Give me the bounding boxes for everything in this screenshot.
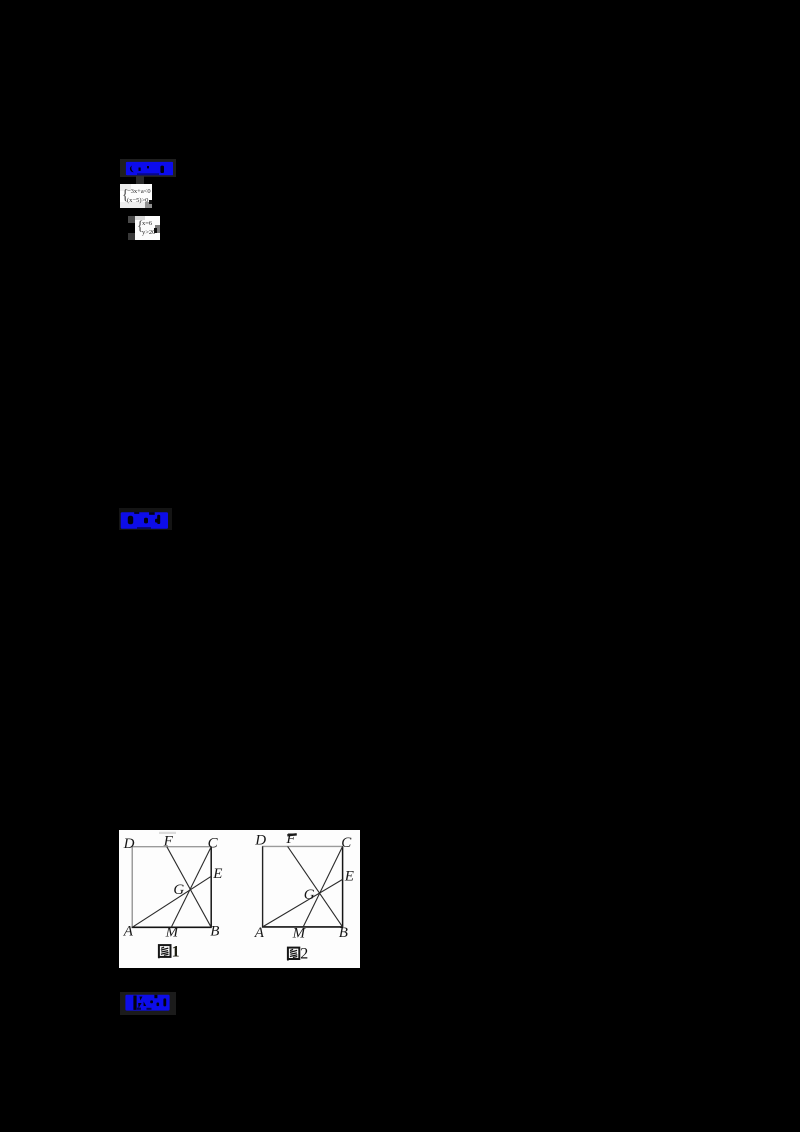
fig2 cevian MC bbox=[303, 846, 342, 927]
formula box 1 bbox=[120, 184, 152, 209]
square fig1 bottom side AB bbox=[132, 926, 212, 928]
svg-text:2: 2 bbox=[300, 946, 308, 963]
svg-text:D: D bbox=[254, 833, 266, 849]
fig2 cevian AE bbox=[263, 879, 343, 927]
connector mark under header1 bbox=[136, 176, 144, 184]
svg-text:A: A bbox=[254, 925, 265, 941]
svg-text:C: C bbox=[208, 836, 219, 852]
caption tu glyph fig1 bbox=[159, 945, 171, 958]
formula box 1 math text bbox=[127, 187, 151, 205]
svg-text:M: M bbox=[165, 925, 180, 941]
header3 blue glyphs bbox=[125, 994, 171, 1012]
header1 backdrop bbox=[120, 159, 176, 177]
svg-text:C: C bbox=[341, 835, 352, 851]
formula box 2 dark mark bbox=[154, 228, 158, 234]
svg-text:M: M bbox=[292, 926, 307, 942]
svg-text:D: D bbox=[123, 836, 135, 852]
fig1 cevian MC bbox=[171, 847, 211, 928]
formula box 1 bottom-right gray corner bbox=[145, 202, 152, 209]
formula box 2 bbox=[135, 216, 161, 241]
square fig2 left side DA bbox=[262, 846, 264, 927]
formula box 2 bottom-right gray corner bbox=[155, 225, 161, 233]
svg-text:B: B bbox=[210, 924, 219, 940]
svg-text:A: A bbox=[123, 924, 134, 940]
formula box 1 dark mark bbox=[149, 200, 152, 204]
svg-text:1: 1 bbox=[172, 944, 180, 961]
formula box 2 brace bbox=[137, 219, 143, 237]
caption tu glyph fig2 bbox=[288, 948, 299, 961]
figure panel bbox=[119, 830, 360, 968]
header3 backdrop bbox=[120, 992, 176, 1015]
fig1 cevian FB bbox=[167, 847, 211, 928]
square fig1 left side DA bbox=[131, 847, 133, 928]
svg-text:B: B bbox=[339, 925, 348, 941]
formula box 1 top-left patch bbox=[120, 184, 131, 191]
formula box 2 left lower gray block bbox=[128, 233, 135, 240]
svg-text:G: G bbox=[304, 887, 315, 903]
fig1 cevian AE bbox=[132, 876, 211, 927]
formula box 2 left upper gray block bbox=[128, 216, 135, 223]
formula box 2 top strip bbox=[135, 216, 145, 220]
svg-text:E: E bbox=[344, 868, 354, 884]
fig2 cevian FB bbox=[288, 846, 343, 927]
square fig1 top side DC bbox=[132, 846, 212, 848]
square fig2 bottom side AB bbox=[262, 926, 343, 928]
header2 backdrop bbox=[119, 508, 172, 530]
svg-text:F: F bbox=[163, 834, 174, 850]
svg-text:G: G bbox=[173, 882, 184, 898]
header1 blue highlight with dark glyphs bbox=[125, 161, 173, 177]
fig2 labels bbox=[254, 831, 354, 941]
fig2 smudge above F bbox=[287, 833, 297, 836]
light strip above F1 bbox=[159, 832, 176, 834]
header2 blue glyphs bbox=[120, 511, 170, 531]
square fig2 right side CB bbox=[342, 846, 344, 927]
fig1 labels bbox=[123, 834, 223, 941]
svg-text:E: E bbox=[212, 866, 222, 882]
formula box 1 bottom strip bbox=[120, 202, 145, 209]
svg-text:F: F bbox=[285, 831, 296, 847]
formula box 2 math text bbox=[142, 219, 160, 237]
square fig1 right side CB bbox=[210, 847, 212, 928]
square fig2 top side DC bbox=[262, 845, 343, 847]
formula box 1 brace bbox=[122, 187, 128, 205]
